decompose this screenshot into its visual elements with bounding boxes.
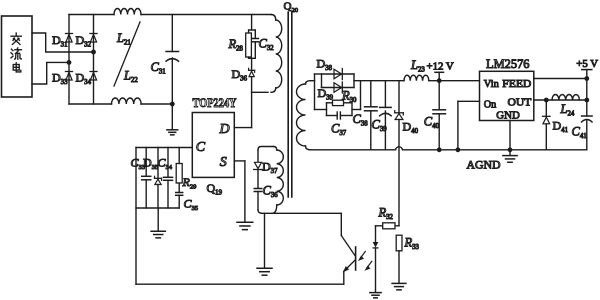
svg-text:Vin: Vin: [484, 78, 499, 90]
svg-text:OUT: OUT: [508, 96, 532, 108]
svg-text:+12 V: +12 V: [427, 61, 454, 73]
svg-text:TOP224Y: TOP224Y: [193, 96, 237, 110]
svg-text:D: D: [219, 122, 230, 137]
svg-text:FEED: FEED: [502, 78, 531, 90]
svg-text:LM2576: LM2576: [486, 57, 530, 71]
svg-text:AGND: AGND: [467, 160, 501, 172]
svg-text:GND: GND: [496, 109, 520, 121]
svg-text:C: C: [196, 140, 206, 155]
svg-text:S: S: [220, 155, 227, 170]
svg-text:+5 V: +5 V: [576, 58, 598, 70]
svg-text:On: On: [484, 98, 497, 110]
